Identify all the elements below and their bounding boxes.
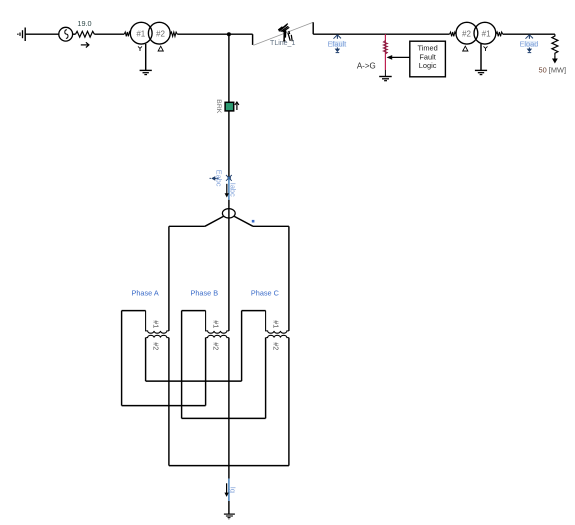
- svg-text:19.0: 19.0: [77, 19, 91, 28]
- svg-text:Phase C: Phase C: [251, 289, 279, 298]
- svg-text:#1: #1: [212, 320, 221, 328]
- svg-text:TLine_1: TLine_1: [270, 40, 295, 47]
- svg-text:#2: #2: [462, 30, 471, 39]
- svg-text:#1: #1: [272, 320, 281, 328]
- svg-text:Phase A: Phase A: [132, 289, 159, 298]
- svg-text:#2: #2: [152, 342, 161, 350]
- svg-text:BRK: BRK: [215, 99, 222, 113]
- svg-text:Iabc: Iabc: [228, 183, 237, 197]
- svg-text:Ig: Ig: [228, 487, 237, 493]
- svg-text:#2: #2: [272, 342, 281, 350]
- svg-text:#1: #1: [482, 30, 491, 39]
- svg-text:Eload: Eload: [519, 39, 538, 48]
- svg-text:Timed: Timed: [417, 44, 437, 53]
- svg-text:Efault: Efault: [327, 39, 346, 48]
- svg-text:A->G: A->G: [357, 62, 376, 71]
- svg-text:Logic: Logic: [419, 61, 437, 70]
- svg-text:Fault: Fault: [419, 52, 435, 61]
- svg-text:#1: #1: [152, 320, 161, 328]
- svg-text:#2: #2: [212, 342, 221, 350]
- svg-text:Eabc: Eabc: [214, 170, 223, 187]
- svg-text:Phase B: Phase B: [191, 289, 219, 298]
- svg-text:50 [MW]: 50 [MW]: [539, 65, 567, 74]
- svg-text:#1: #1: [136, 30, 145, 39]
- svg-text:#2: #2: [156, 30, 165, 39]
